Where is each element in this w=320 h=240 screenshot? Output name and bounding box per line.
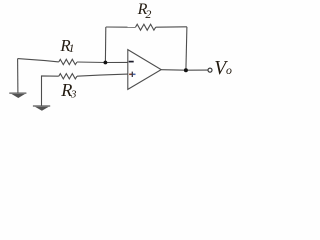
- wire ground G1 drop: [17, 59, 19, 93]
- op-amp minus pin label: [129, 61, 134, 63]
- wire feedback right vertical: [186, 27, 187, 71]
- resistor R2: [136, 24, 156, 30]
- svg-text:3: 3: [70, 88, 77, 100]
- wire op-amp output: [161, 69, 208, 72]
- node A junction dot (inverting input): [104, 61, 108, 65]
- output terminal circle: [208, 68, 212, 72]
- wire feedback top right: [156, 26, 187, 28]
- wire R1 to op-amp minus input: [77, 61, 128, 64]
- node B junction dot (output): [184, 68, 188, 72]
- op-amp U1: [128, 50, 161, 90]
- svg-text:o: o: [226, 63, 232, 77]
- wire R3 to op-amp plus input: [77, 74, 128, 76]
- ground G2: [33, 106, 50, 111]
- wire from left ground corner to R1: [18, 59, 59, 62]
- op-amp plus pin label: [129, 72, 135, 77]
- resistor R1: [59, 59, 77, 64]
- wire feedback left vertical: [104, 27, 106, 63]
- svg-text:1: 1: [69, 41, 75, 55]
- svg-text:2: 2: [145, 7, 151, 21]
- ground G1: [9, 93, 26, 98]
- wire feedback top left: [106, 26, 136, 28]
- resistor R3: [59, 74, 77, 79]
- wire ground G2 corner and drop: [42, 76, 59, 106]
